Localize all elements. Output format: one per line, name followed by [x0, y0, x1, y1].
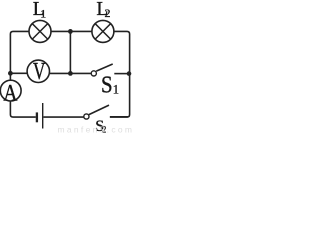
battery: long plate (positive) — [42, 103, 44, 129]
svg-text:A: A — [3, 80, 17, 105]
node: middle junction — [68, 71, 73, 76]
wire: ammeter to bottom-left corner to battery — [10, 101, 35, 117]
battery: short plate (negative) — [36, 112, 38, 122]
wire: middle row left (dot to voltmeter) — [10, 72, 27, 74]
lamp L1 — [29, 20, 51, 42]
switch S1 pivot — [91, 71, 96, 76]
wire: S1 fixed contact to right vertical — [114, 73, 129, 75]
lamp L2 — [92, 20, 114, 42]
node: top junction — [68, 29, 73, 34]
svg-text:V: V — [33, 59, 46, 85]
wire: S2 fixed contact line — [110, 116, 128, 118]
wire: top-right corner, right vertical down to bottom-right corner — [110, 31, 130, 117]
wire: top middle horizontal — [51, 30, 92, 32]
ammeter A — [0, 80, 21, 101]
switch S2 pivot — [84, 114, 89, 119]
voltmeter V — [27, 60, 49, 82]
svg-text:1: 1 — [113, 83, 119, 97]
node: right junction — [127, 71, 132, 76]
wire: bottom middle horizontal (battery to S2) — [43, 116, 84, 118]
wire: middle row (voltmeter to switch S1) — [49, 72, 91, 74]
node: left junction — [8, 71, 13, 76]
wire: middle vertical — [69, 31, 71, 73]
svg-text:2: 2 — [105, 6, 111, 20]
switch S2 blade — [89, 105, 109, 115]
svg-text:S: S — [101, 73, 113, 99]
switch S1 blade — [96, 64, 112, 71]
wire: top-left corner to lamp L1, and left vertical down to ammeter — [10, 31, 29, 80]
svg-text:manfen5.com: manfen5.com — [58, 125, 135, 135]
svg-text:1: 1 — [40, 6, 46, 20]
